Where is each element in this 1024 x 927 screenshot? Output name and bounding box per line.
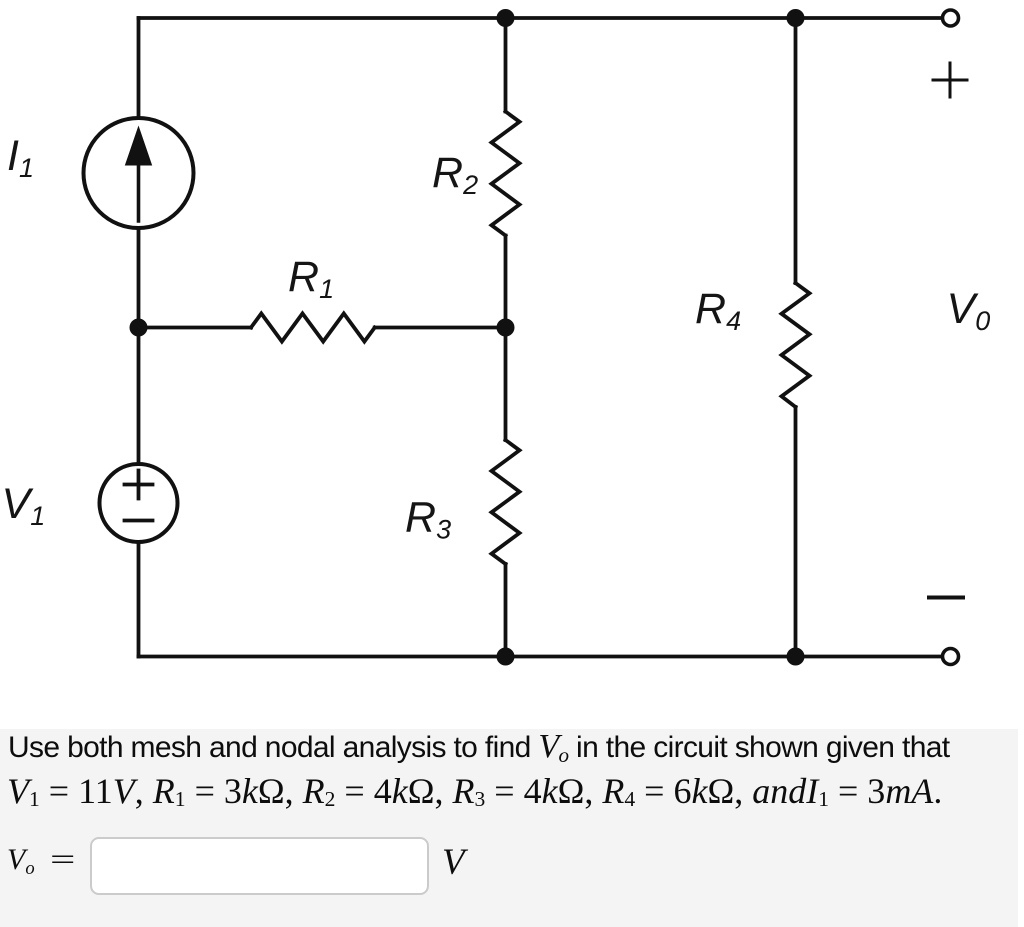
svg-text:R1: R1 [288, 253, 334, 304]
label R4 [695, 285, 741, 336]
wire left vertical (top segment) [137, 18, 141, 118]
wire R3 bottom lead [504, 564, 508, 657]
junction bottom at R4 column [787, 648, 805, 666]
wire middle horizontal (left of R1) [139, 326, 252, 330]
answer input box [90, 837, 429, 895]
terminal top output [943, 10, 959, 26]
svg-text:V1: V1 [2, 480, 46, 531]
svg-text:R3: R3 [405, 494, 451, 545]
wire bottom horizontal [139, 655, 942, 659]
junction top at R2 column [497, 9, 515, 27]
wire R3 top lead [504, 328, 508, 441]
wire R4 top lead [794, 18, 798, 283]
label R3 [405, 494, 451, 545]
question line 1 [8, 728, 949, 766]
terminal bottom output [943, 649, 959, 665]
junction bottom at R3 column [497, 648, 515, 666]
answer unit V [442, 841, 465, 884]
current source I1 [84, 118, 194, 228]
resistor R4 [782, 283, 810, 407]
question panel [0, 729, 1018, 927]
wire R2 bottom lead [504, 236, 508, 328]
resistor R3 [492, 440, 520, 564]
resistor R1 [251, 314, 375, 342]
junction middle node at R2/R3 [497, 319, 515, 337]
svg-text:R2: R2 [432, 149, 478, 200]
label R2 [432, 149, 478, 200]
minus sign output polarity [929, 596, 963, 600]
voltage source V1 [100, 464, 178, 542]
label I1 [7, 132, 34, 183]
plus sign output polarity [933, 63, 967, 97]
svg-text:I1: I1 [7, 132, 34, 183]
junction left middle node [130, 319, 148, 337]
wire top horizontal [139, 16, 942, 20]
wire left vertical (mid segment) [137, 228, 141, 464]
answer label Vo = [7, 843, 67, 877]
question line 2 [7, 770, 942, 812]
svg-text:R4: R4 [695, 285, 741, 336]
wire middle horizontal (right of R1) [375, 326, 506, 330]
label R1 [288, 253, 334, 304]
wire left vertical (bottom segment) [137, 542, 141, 657]
label V1 [2, 480, 46, 531]
wire R4 bottom lead [794, 407, 798, 657]
svg-text:V0: V0 [947, 285, 991, 336]
junction top at R4 column [787, 9, 805, 27]
wire R2 column top lead [504, 18, 508, 112]
label Vo [947, 285, 991, 336]
resistor R2 [492, 112, 520, 236]
